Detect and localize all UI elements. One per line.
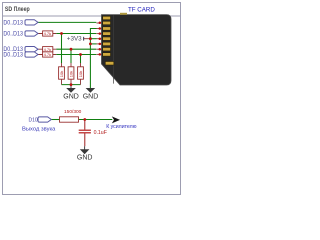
svg-text:4.7k: 4.7k [44,47,52,52]
svg-text:0.1uF: 0.1uF [94,130,107,136]
svg-text:D0..D13: D0..D13 [3,20,23,26]
svg-text:К усилителю: К усилителю [106,124,136,130]
svg-text:Выход звука: Выход звука [22,127,56,133]
svg-text:10k: 10k [59,71,64,77]
svg-text:GND: GND [83,93,99,100]
svg-text:GND: GND [63,93,79,100]
svg-text:150/300: 150/300 [64,109,82,115]
svg-text:10k: 10k [69,71,74,77]
svg-text:+3V3: +3V3 [67,36,82,43]
svg-text:D0..D13: D0..D13 [3,52,23,58]
svg-text:4.7k: 4.7k [44,31,52,36]
svg-text:D10: D10 [29,117,38,123]
svg-text:SD Плеер: SD Плеер [5,7,30,14]
svg-text:D0..D13: D0..D13 [3,31,23,37]
svg-text:4.7k: 4.7k [44,52,52,57]
svg-text:GND: GND [77,154,93,161]
svg-text:10k: 10k [78,71,83,77]
svg-text:TF CARD: TF CARD [128,6,155,13]
